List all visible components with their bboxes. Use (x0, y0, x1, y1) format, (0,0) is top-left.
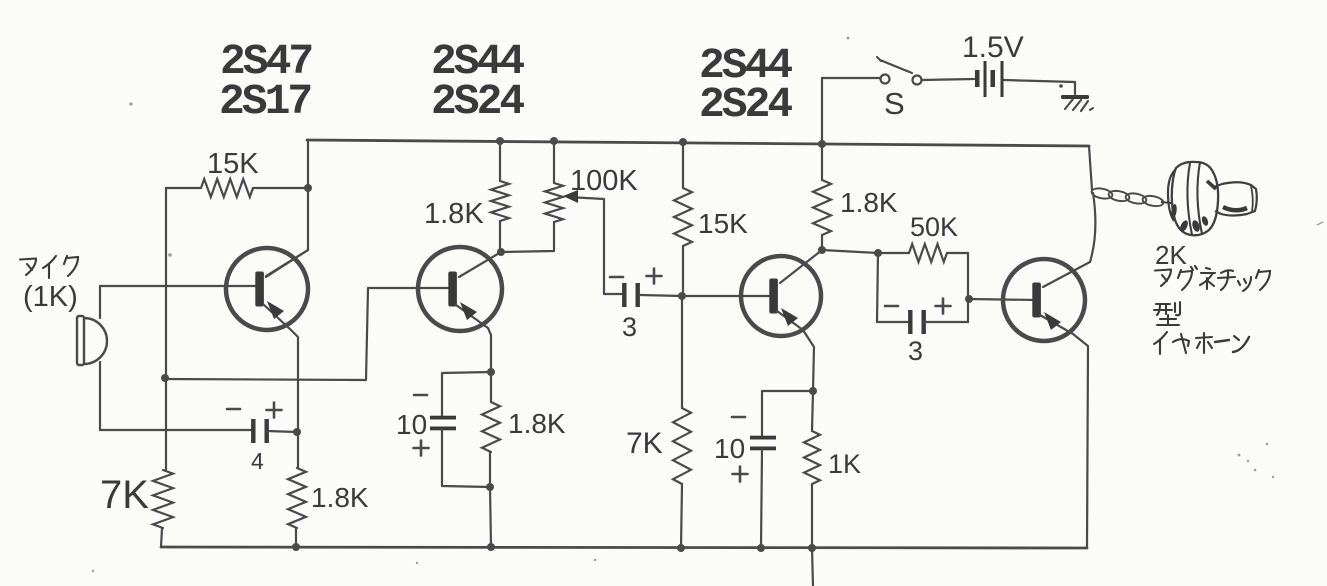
label C3 value 3 (622, 312, 637, 342)
earphone body (1161, 162, 1323, 235)
label C3 polarity plus (647, 269, 662, 284)
wire left bias column (165, 188, 167, 470)
wire R8 top lead (821, 144, 823, 180)
node rail R9 (808, 544, 816, 552)
svg-text:3: 3 (908, 336, 923, 366)
resistor R2 7K (153, 470, 173, 528)
node rail R3 (292, 543, 300, 551)
wire Q4 base (969, 299, 1036, 300)
wire Q3 base (683, 295, 772, 297)
label C1 polarity plus (267, 403, 282, 418)
label C5 polarity plus (936, 299, 951, 314)
node Q4 base junction (965, 295, 973, 303)
wire R4 bottom lead (499, 221, 501, 252)
microphone MIC body (77, 316, 107, 365)
svg-text:15K: 15K (207, 148, 259, 180)
node rail R8 switch riser (818, 140, 826, 148)
wire C3 right lead (640, 295, 682, 296)
wire Q1 collector riser (266, 141, 308, 277)
transistor Q3 (741, 256, 821, 336)
wire R6 bottom lead (682, 246, 684, 296)
label R8 value 1.8K (840, 187, 898, 218)
wire switch riser (821, 78, 823, 143)
svg-text:10: 10 (714, 433, 745, 464)
label R7 value 7K (626, 427, 663, 460)
node Q2 emitter junction (487, 368, 495, 376)
label R2 value 7K (100, 473, 149, 517)
label earphone 2K (1155, 240, 1187, 270)
wire Q1 base (100, 285, 258, 287)
svg-text:1.8K: 1.8K (508, 408, 566, 439)
wire Q3 collector to network (822, 250, 878, 253)
wire Q1 emitter diag (263, 304, 298, 468)
wire R9 top lead (812, 391, 813, 431)
svg-text:15K: 15K (698, 208, 748, 239)
svg-text:2S17: 2S17 (219, 77, 310, 126)
transistor Q2 (418, 247, 502, 331)
svg-text:7K: 7K (100, 473, 149, 517)
node Q2 collector junction (497, 248, 505, 256)
resistor R10 50K (909, 244, 947, 262)
resistor R6 15K bias (674, 188, 692, 246)
label C3 polarity minus (610, 276, 623, 279)
label Q2 types 2S44 2S24 (431, 37, 524, 126)
wire 7K bottom lead (161, 528, 162, 547)
wire Q3 collector diag (780, 250, 822, 283)
node C2-R5 junction (486, 483, 494, 491)
resistor R9 1K emitter (804, 431, 820, 484)
wire Q2 collector diag (459, 252, 501, 277)
svg-text:1.8K: 1.8K (311, 482, 369, 513)
svg-text:S: S (884, 86, 905, 121)
svg-text:50K: 50K (910, 212, 958, 242)
label earphone iyahon katakana (1154, 332, 1249, 354)
capacitor C3 3uF coupling (622, 283, 640, 307)
svg-text:2S24: 2S24 (699, 80, 792, 129)
wire to switch (822, 77, 880, 79)
capacitor C2 10uF (430, 416, 456, 431)
wire Q3 emitter diag (777, 311, 814, 391)
label switch S (884, 86, 905, 121)
label C2 polarity minus (414, 394, 427, 397)
svg-text:4: 4 (251, 448, 264, 474)
label VR1 value 100K (570, 165, 638, 197)
label R5 value 1.8K (508, 408, 566, 439)
svg-text:2S24: 2S24 (431, 77, 524, 126)
arrow Q3 emitter (781, 308, 798, 326)
wire C5 left lead (877, 321, 911, 323)
wire 50K right lead (947, 252, 968, 254)
node Q3 emitter junction (809, 387, 817, 395)
node rail R6 (679, 138, 687, 146)
wire C4 top link (762, 391, 813, 437)
wire C5 right lead (924, 321, 968, 323)
wire 15K left lead (166, 187, 201, 189)
label C4 value 10 (714, 433, 745, 464)
wire coupling C1 left (100, 429, 254, 431)
wire R6 top lead (682, 142, 684, 188)
wire 15K right lead (253, 187, 308, 189)
resistor R4 1.8K collector (491, 181, 509, 221)
wire Q2 emitter diag (456, 305, 491, 402)
wire divider middle (681, 296, 683, 408)
wire R7 bottom lead (681, 484, 682, 548)
wire VR1 wiper (568, 197, 622, 294)
wire stub below rail (812, 548, 813, 586)
node Q1 emitter junction (293, 428, 301, 436)
label C5 value 3 (908, 336, 923, 366)
capacitor C4 10uF (750, 436, 776, 451)
node rail R7 (677, 544, 685, 552)
wire supply drop to earphone (1089, 146, 1092, 190)
label earphone kata kanji (1154, 302, 1180, 325)
resistor R5 1.8K emitter (482, 402, 500, 452)
label R6 value 15K (698, 208, 748, 239)
label battery 1.5V (962, 31, 1024, 64)
wire bottom ground rail (161, 547, 1087, 548)
wire R4 top lead (499, 141, 501, 181)
wire C4 bottom link (761, 449, 762, 548)
label R1 value 15K (207, 148, 259, 180)
wire 50K left lead (878, 252, 909, 254)
wire C2 bottom link (442, 429, 490, 487)
label C4 polarity plus (733, 467, 748, 482)
wire Q1 collector diag (266, 250, 308, 276)
battery BT1 1.5V (975, 61, 1004, 97)
wire top supply rail (307, 140, 1089, 146)
label MIC name maiku katakana (20, 256, 78, 278)
svg-text:1.5V: 1.5V (962, 31, 1024, 64)
wire VR1 top lead (553, 141, 555, 183)
switch S lever (877, 57, 912, 73)
label C1 value 4 (251, 448, 264, 474)
node rail C4 (757, 544, 765, 552)
wire switch to battery (922, 79, 974, 80)
svg-text:3: 3 (622, 312, 637, 342)
wire 1.8K bottom lead (295, 528, 297, 547)
resistor R8 1.8K collector (813, 180, 831, 235)
wire coupling C1 right (267, 431, 297, 432)
wire R8 bottom lead (821, 235, 823, 250)
wire network right side (967, 253, 969, 322)
label Q1 types 2S47 2S17 (219, 37, 311, 126)
svg-text:1.8K: 1.8K (424, 198, 484, 230)
wire interstage feedback to Q2 base (165, 288, 452, 380)
svg-text:1.8K: 1.8K (840, 187, 898, 218)
resistor R7 7K bias (673, 408, 691, 484)
node rail R4 (496, 137, 504, 145)
svg-text:7K: 7K (626, 427, 663, 460)
label C2 polarity plus (414, 441, 429, 456)
resistor R1 15K feedback (201, 179, 253, 197)
capacitor C5 3uF (908, 310, 926, 334)
switch S contacts (881, 75, 922, 85)
wire R5 bottom lead (489, 452, 491, 487)
arrow Q1 emitter (267, 301, 284, 319)
arrow Q4 emitter (1044, 312, 1061, 330)
node Q3 collector junction (818, 246, 826, 254)
twisted pair to earphone (1091, 187, 1164, 208)
node collector-15K junction (304, 184, 312, 192)
wire battery to ground (1004, 80, 1075, 94)
ground symbol (1061, 95, 1093, 111)
wire Q4 emitter diag (1040, 315, 1088, 548)
wire mic top riser (99, 286, 101, 318)
node rail VR1 (550, 137, 558, 145)
label Q3 types 2S44 2S24 (699, 41, 792, 129)
node network left (874, 249, 882, 257)
label R10 value 50K (910, 212, 958, 242)
wire R5 to rail (490, 487, 491, 547)
svg-text:10: 10 (396, 409, 427, 440)
label C1 polarity minus (227, 408, 240, 411)
label R9 value 1K (828, 449, 861, 479)
wire Q4 collector diag (1043, 193, 1095, 287)
wire C2 top link (442, 372, 491, 418)
potentiometer VR1 100K (545, 183, 563, 222)
label MIC impedance (1K) (23, 281, 78, 313)
svg-text:(1K): (1K) (23, 281, 78, 313)
wire network left side (877, 253, 878, 322)
label R3 value 1.8K (311, 482, 369, 513)
capacitor C1 4uF (251, 419, 269, 443)
svg-text:2K: 2K (1155, 240, 1187, 270)
label R4 value 1.8K (424, 198, 484, 230)
label C4 polarity minus (732, 416, 745, 419)
node Q3 base junction (678, 292, 686, 300)
wire R9 bottom lead (811, 484, 813, 548)
arrow Q2 emitter (460, 302, 477, 320)
resistor R3 1.8K emitter (288, 468, 306, 528)
svg-text:100K: 100K (570, 165, 638, 197)
label earphone magnetic katakana (1155, 266, 1270, 291)
label C2 value 10 (396, 409, 427, 440)
transistor Q4 (1003, 259, 1085, 341)
transistor Q1 (226, 248, 308, 330)
wire mic bottom drop (99, 362, 101, 430)
svg-text:1K: 1K (828, 449, 861, 479)
label C5 polarity minus (885, 305, 898, 308)
node bias-feedback junction (161, 374, 169, 382)
wire VR1 bottom lead (501, 222, 554, 252)
arrow VR1 wiper head (563, 190, 578, 203)
node rail R5 (487, 543, 495, 551)
